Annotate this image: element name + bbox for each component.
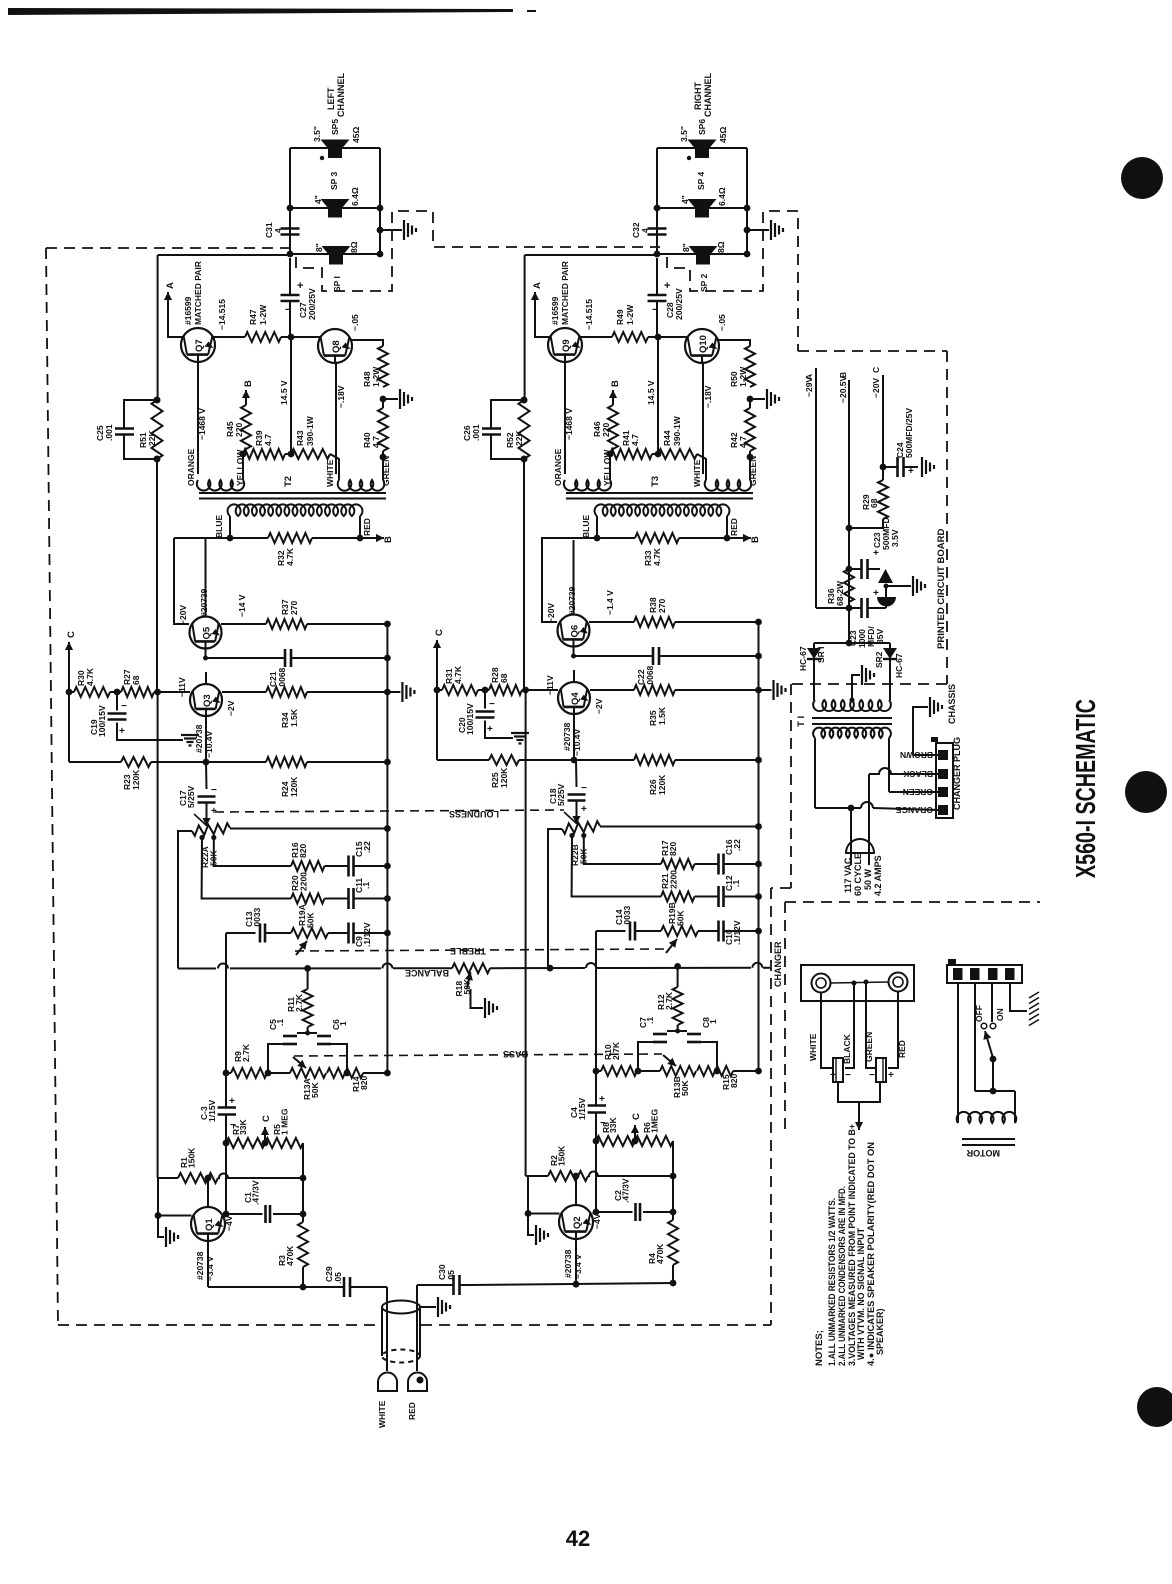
ground speaker right	[747, 229, 769, 231]
svg-text:SPEAKER): SPEAKER)	[875, 1308, 885, 1355]
svg-text:1-2W: 1-2W	[258, 304, 268, 325]
tone rail vertical L	[225, 933, 227, 1108]
transistor Q1	[191, 1207, 225, 1241]
node B arrow above R46	[612, 390, 614, 405]
capacitor C2	[593, 1212, 597, 1214]
Q4 emitter drop	[573, 714, 575, 760]
resistor R26	[634, 755, 675, 765]
svg-text:RED: RED	[897, 1040, 907, 1058]
wiper arrow C18 to R22B	[576, 801, 578, 825]
svg-text:.05: .05	[446, 1270, 456, 1282]
resistor R11	[303, 989, 313, 1027]
wire speaker row SP5	[290, 147, 380, 149]
svg-text:−1468 V: −1468 V	[197, 408, 207, 440]
capacitor C20	[484, 690, 486, 709]
capacitor C26 loop	[491, 400, 524, 428]
wire black lead	[845, 983, 854, 1068]
svg-text:−2V: −2V	[226, 700, 236, 716]
svg-text:33K: 33K	[608, 1117, 618, 1133]
resistor R49	[612, 332, 648, 342]
switch OFF contact	[991, 983, 993, 1022]
svg-text:.1: .1	[275, 1019, 285, 1026]
svg-text:4.7: 4.7	[263, 434, 273, 446]
svg-text:120K: 120K	[657, 774, 667, 795]
wire speaker row SP3	[290, 207, 380, 209]
svg-text:68: 68	[131, 675, 141, 685]
resistor R27	[121, 687, 154, 697]
tone rail to Q1 row R	[595, 1141, 597, 1212]
capacitor C4	[588, 1104, 606, 1107]
svg-text:1MEG: 1MEG	[650, 1109, 660, 1133]
speaker SP5	[321, 140, 350, 149]
hatched ground motor	[1029, 992, 1039, 998]
row2 R20	[202, 838, 291, 899]
wire rail top to speaker node L	[158, 254, 290, 256]
svg-text:4.7K: 4.7K	[285, 547, 295, 566]
svg-text:820: 820	[668, 842, 678, 856]
dashed gang line LOUDNESS	[215, 810, 564, 812]
svg-text:ORANGE: ORANGE	[186, 448, 196, 486]
plug RED	[408, 1373, 427, 1392]
svg-text:BLUE: BLUE	[214, 515, 224, 538]
wire A to Q7	[168, 314, 183, 337]
speaker SP3	[321, 199, 350, 208]
T1 secondary left lead	[814, 738, 816, 808]
svg-text:CHANNEL: CHANNEL	[703, 72, 713, 117]
svg-text:CHANNEL: CHANNEL	[336, 72, 346, 117]
svg-text:−3.4 V: −3.4 V	[205, 1256, 215, 1281]
dashed gang line TREBLE	[295, 949, 664, 951]
resistor R8	[593, 1138, 600, 1145]
svg-text:MOTOR: MOTOR	[966, 1148, 1000, 1158]
power rail C	[882, 375, 884, 467]
ground below C19	[117, 723, 183, 741]
svg-text:C: C	[434, 629, 445, 636]
svg-text:#20739: #20739	[567, 586, 577, 615]
svg-text:SP5: SP5	[330, 119, 340, 135]
svg-text:B: B	[243, 380, 254, 387]
capacitor C18	[575, 760, 578, 787]
resistor R41	[610, 449, 652, 459]
Q10 emitter wire	[702, 362, 704, 475]
svg-text:+: +	[873, 548, 879, 559]
svg-text:#20738: #20738	[563, 1249, 573, 1278]
svg-text:4.7: 4.7	[738, 436, 748, 448]
resistor R3	[298, 1222, 308, 1267]
svg-text:2.ALL UNMARKED CONDENSORS ARE: 2.ALL UNMARKED CONDENSORS ARE IN MFD.	[837, 1186, 847, 1366]
wire right-ch speaker rail right	[746, 148, 748, 252]
changer plug pin orange	[938, 805, 948, 815]
dashed enclosure left/top/bottom	[46, 247, 289, 249]
svg-text:#20738: #20738	[562, 722, 572, 751]
transformer T primary coil orange L	[197, 480, 244, 491]
resistor R42	[745, 408, 755, 451]
svg-text:+: +	[599, 1094, 605, 1105]
svg-text:68: 68	[869, 498, 879, 508]
capacitor C25 loop	[124, 400, 157, 428]
svg-text:RED: RED	[362, 518, 372, 536]
capacitor C24	[880, 464, 887, 471]
cartridge terminal right	[889, 973, 908, 992]
svg-text:50 W: 50 W	[863, 868, 873, 890]
svg-text:T2: T2	[283, 476, 294, 487]
speaker SP6	[688, 140, 717, 149]
svg-text:Q9: Q9	[561, 339, 572, 352]
svg-text:2.7K: 2.7K	[664, 991, 674, 1010]
motor connector strip	[947, 965, 1022, 983]
svg-text:117 VAC: 117 VAC	[843, 857, 853, 893]
wire to Q8	[281, 336, 320, 338]
svg-text:270: 270	[289, 601, 299, 615]
wire green lead	[866, 982, 876, 1068]
svg-text:.22: .22	[732, 839, 742, 851]
wire Q2 bottom junction	[573, 1281, 580, 1288]
svg-text:CHANGER PLUG: CHANGER PLUG	[952, 737, 962, 810]
svg-text:B: B	[838, 372, 848, 378]
capacitor C12	[695, 896, 719, 898]
capacitor C8	[687, 1033, 701, 1036]
capacitor C15	[325, 865, 349, 867]
transformer T1 core	[812, 717, 892, 719]
svg-text:3.5": 3.5"	[312, 126, 322, 142]
svg-text:SP6: SP6	[697, 119, 707, 135]
svg-text:820: 820	[298, 844, 308, 858]
wire R22B right end to bus	[600, 826, 759, 828]
svg-text:6.4Ω: 6.4Ω	[350, 187, 360, 206]
svg-text:−14.515: −14.515	[584, 299, 594, 330]
motor wire pin1	[957, 983, 959, 1123]
bus vertical L	[386, 624, 388, 1073]
wire yellow up	[242, 454, 244, 480]
tone rail vertical R	[595, 931, 597, 1106]
svg-text:45Ω: 45Ω	[351, 127, 361, 143]
dashed enclosure right side weave	[296, 211, 660, 291]
node A arrow R	[534, 292, 536, 314]
svg-text:−20.5V: −20.5V	[838, 375, 848, 403]
wire 14.5V drop R	[657, 337, 659, 454]
ground below R18	[471, 989, 484, 1008]
row2 R21	[572, 836, 661, 897]
svg-text:+: +	[487, 724, 493, 735]
svg-text:CHASSIS: CHASSIS	[947, 684, 957, 724]
svg-text:+: +	[888, 1070, 894, 1081]
motor wire pin4 to ground	[1010, 983, 1027, 1011]
svg-text:470K: 470K	[655, 1243, 665, 1264]
node C arrow L	[68, 642, 70, 663]
chassis ground	[913, 707, 928, 755]
svg-text:WITH VTVM. NO SIGNAL INPUT: WITH VTVM. NO SIGNAL INPUT	[856, 1228, 866, 1360]
svg-text:LOUDNESS: LOUDNESS	[449, 809, 499, 819]
svg-text:#16599: #16599	[550, 296, 560, 325]
svg-text:4.7: 4.7	[630, 434, 640, 446]
node C arrow tone L	[262, 1140, 269, 1147]
changer plug pin green	[938, 787, 948, 797]
wire Q10 out	[717, 340, 750, 346]
svg-text:ORANGE: ORANGE	[895, 805, 933, 815]
svg-text:−20V: −20V	[178, 605, 188, 625]
svg-text:A: A	[165, 282, 176, 289]
wire Q2 top to base row	[575, 1176, 577, 1206]
node A arrow L	[167, 292, 169, 314]
svg-text:−14 V: −14 V	[237, 594, 247, 617]
wire T secondary to Q6	[542, 538, 557, 622]
dashed gang line BASS	[294, 1054, 662, 1056]
svg-text:T3: T3	[650, 476, 661, 487]
svg-text:−: −	[121, 701, 127, 712]
svg-text:Q4: Q4	[570, 692, 581, 705]
motor wire pin2	[974, 983, 976, 1091]
resistor R43	[291, 449, 330, 459]
bass row R10	[593, 1068, 600, 1075]
resistor R23	[68, 692, 70, 762]
svg-text:1-2W: 1-2W	[625, 304, 635, 325]
speaker SP4	[688, 199, 717, 208]
svg-text:.47/3V: .47/3V	[251, 1180, 261, 1205]
svg-text:ORANGE: ORANGE	[553, 448, 563, 486]
svg-text:OFF: OFF	[974, 1005, 984, 1022]
svg-text:200/25V: 200/25V	[307, 288, 317, 320]
resistor R30	[68, 663, 70, 692]
wiper arrow R19B	[666, 939, 677, 953]
cartridge link wire	[830, 982, 889, 983]
wire white lead	[821, 992, 833, 1068]
cable shield ground	[420, 1306, 436, 1308]
ground mid PCB	[886, 585, 911, 587]
svg-text:−: −	[652, 304, 658, 316]
svg-text:.47/3V: .47/3V	[621, 1178, 631, 1203]
svg-text:−: −	[581, 783, 587, 794]
resistor R40	[378, 408, 388, 451]
wire Q1 top to base row	[207, 1178, 209, 1208]
svg-text:42: 42	[566, 1526, 590, 1551]
svg-text:TREBLE: TREBLE	[450, 946, 486, 956]
capacitor C17	[205, 762, 208, 789]
diode SR2	[889, 643, 891, 648]
ground left of Q1	[158, 1216, 164, 1238]
svg-text:50K: 50K	[680, 1080, 690, 1096]
svg-text:WHITE: WHITE	[377, 1400, 387, 1428]
svg-text:3.5V: 3.5V	[890, 529, 900, 547]
transformer secondary coil L	[228, 504, 363, 516]
rail down to Q2	[525, 690, 527, 1176]
wire Q7 collector row	[213, 336, 245, 338]
changer dashed box	[785, 901, 1040, 903]
rail left R with R52	[524, 255, 526, 400]
ground below R50	[747, 396, 754, 403]
capacitor C28	[656, 258, 658, 295]
svg-text:BLUE: BLUE	[581, 515, 591, 538]
capacitor C21	[205, 649, 207, 659]
svg-text:−.18V: −.18V	[336, 385, 346, 408]
row3 C14 and R19B	[596, 930, 626, 932]
bottom rail L	[207, 1242, 209, 1288]
ground on bus R	[759, 689, 772, 691]
svg-text:820: 820	[359, 1076, 369, 1090]
svg-text:−: −	[845, 1070, 851, 1081]
ground speaker left	[380, 229, 402, 231]
svg-text:50K: 50K	[310, 1082, 320, 1098]
svg-text:1: 1	[708, 1019, 718, 1024]
svg-text:BALANCE: BALANCE	[405, 968, 449, 978]
svg-text:4: 4	[273, 228, 283, 233]
transistor Q9	[548, 328, 582, 362]
svg-text:−3.4 V: −3.4 V	[573, 1254, 583, 1279]
motor core lines	[962, 1138, 1015, 1140]
resistor R7	[223, 1140, 230, 1147]
wiper arrow C17 to R22A	[206, 803, 208, 827]
wire T secondary to Q5	[174, 538, 189, 624]
node B arrow above R45	[245, 390, 247, 405]
svg-text:WHITE: WHITE	[808, 1033, 818, 1061]
svg-text:.1: .1	[731, 880, 741, 887]
svg-text:.1/12V: .1/12V	[362, 922, 372, 947]
cartridge box	[801, 965, 914, 1001]
Q3 emitter drop	[205, 716, 207, 762]
changer plug pin black	[938, 769, 948, 779]
resistor R50	[745, 346, 755, 387]
capacitor C23 1000MFD	[846, 605, 853, 612]
bus vertical R	[758, 622, 760, 1071]
resistor R33	[635, 533, 679, 543]
svg-text:RED: RED	[407, 1402, 417, 1420]
svg-text:Q6: Q6	[570, 625, 581, 638]
transistor Q7	[181, 328, 215, 362]
svg-text:14.5 V: 14.5 V	[646, 380, 656, 405]
capacitor changer right	[876, 1058, 886, 1082]
resistor R24	[266, 757, 307, 767]
potentiometer R13B	[638, 1070, 660, 1072]
svg-text:1/15V: 1/15V	[577, 1097, 587, 1120]
node C arrow R	[436, 640, 438, 661]
svg-text:BASS: BASS	[503, 1049, 528, 1059]
svg-text:100/15V: 100/15V	[465, 703, 475, 735]
svg-text:Q5: Q5	[202, 626, 213, 639]
svg-text:C: C	[66, 631, 77, 638]
svg-text:#16599: #16599	[183, 296, 193, 325]
potentiometer R13A	[268, 1072, 290, 1074]
wire right-ch speaker rows	[657, 147, 747, 149]
svg-text:1 MEG: 1 MEG	[280, 1108, 290, 1135]
capacitor C10	[698, 930, 719, 932]
changer plug body	[936, 743, 953, 818]
capacitor C22	[573, 647, 575, 657]
svg-text:PRINTED CIRCUIT BOARD: PRINTED CIRCUIT BOARD	[936, 529, 947, 649]
svg-text:−11V: −11V	[177, 677, 187, 697]
svg-text:SP 4: SP 4	[696, 171, 706, 190]
svg-text:WHITE: WHITE	[692, 459, 702, 487]
svg-text:.0033: .0033	[622, 905, 632, 927]
speaker SP1	[322, 246, 351, 255]
motor coil	[975, 1090, 1015, 1092]
resistor R31	[436, 661, 438, 690]
svg-text:C: C	[871, 367, 881, 373]
resistor R47	[245, 332, 281, 342]
svg-text:390-1W: 390-1W	[305, 415, 315, 446]
resistor R28	[489, 685, 522, 695]
svg-text:22K: 22K	[514, 430, 524, 446]
svg-text:1-2W: 1-2W	[738, 366, 748, 387]
svg-text:BLACK: BLACK	[902, 769, 933, 779]
svg-text:R49: R49	[615, 309, 625, 325]
T1 secondary right lead	[888, 738, 890, 792]
svg-text:120K: 120K	[499, 767, 509, 788]
transformer core L	[199, 492, 386, 494]
plug WHITE	[378, 1373, 397, 1392]
resistor R29	[878, 480, 888, 519]
svg-text:NOTES;: NOTES;	[814, 1330, 825, 1366]
svg-text:A: A	[804, 374, 814, 380]
capacitor C32	[656, 215, 658, 229]
svg-text:3.5": 3.5"	[679, 126, 689, 142]
svg-text:4.7: 4.7	[371, 436, 381, 448]
wire R5 to C1 row	[302, 1143, 304, 1214]
svg-text:−11V: −11V	[545, 675, 555, 695]
svg-text:Q2: Q2	[572, 1216, 583, 1229]
potentiometer R18	[452, 963, 490, 973]
svg-text:−.05: −.05	[717, 314, 727, 331]
svg-text:68-2W: 68-2W	[835, 580, 845, 606]
thermistor triangle	[878, 569, 893, 583]
half disc	[877, 597, 896, 607]
svg-text:.0068: .0068	[277, 667, 287, 689]
capacitor C30	[417, 1284, 443, 1286]
svg-text:#20738: #20738	[195, 1251, 205, 1280]
svg-text:−1.4 V: −1.4 V	[605, 590, 615, 615]
capacitor C-3	[218, 1106, 236, 1109]
resistor R39	[243, 449, 285, 459]
wire Q9 collector row	[580, 336, 612, 338]
potentiometer R22A	[192, 823, 230, 836]
svg-text:SR2: SR2	[874, 651, 884, 668]
transformer T primary coil orange R	[564, 480, 611, 491]
svg-text:35V: 35V	[875, 629, 885, 644]
wire R22B left end down	[548, 829, 562, 966]
svg-text:1.5K: 1.5K	[289, 708, 299, 727]
svg-text:1.5K: 1.5K	[657, 706, 667, 725]
svg-text:Q10: Q10	[698, 335, 709, 353]
svg-text:4.7K: 4.7K	[453, 665, 463, 684]
svg-text:+: +	[873, 588, 879, 599]
svg-text:50K: 50K	[676, 910, 686, 926]
svg-text:T I: T I	[796, 716, 807, 727]
wire red lead	[888, 991, 898, 1068]
svg-text:−: −	[869, 1070, 875, 1081]
rail left L with R51	[157, 255, 159, 400]
wire 14.5V drop L	[290, 337, 292, 454]
svg-text:RED: RED	[729, 518, 739, 536]
svg-text:+: +	[297, 280, 303, 292]
svg-text:−4V: −4V	[592, 1213, 602, 1229]
capacitor C11	[325, 898, 349, 900]
wire C27/C28 drop L	[289, 330, 291, 337]
svg-text:.05: .05	[333, 1272, 343, 1284]
svg-text:.1: .1	[645, 1017, 655, 1024]
svg-text:X560-I SCHEMATIC: X560-I SCHEMATIC	[1070, 699, 1101, 878]
svg-text:GREEN: GREEN	[864, 1032, 874, 1062]
svg-text:.0033: .0033	[252, 907, 262, 929]
binding hole middle	[1125, 771, 1167, 813]
wire left speaker rail	[289, 148, 291, 254]
node B arrow out L	[360, 537, 384, 539]
changer plug pin brown	[938, 750, 948, 760]
wire speaker row SP1	[290, 253, 380, 255]
resistor R35	[590, 689, 634, 691]
svg-text:RIGHT: RIGHT	[693, 82, 703, 111]
ground T1 center tap	[852, 675, 860, 700]
wiper arrow R19A	[296, 941, 307, 955]
svg-text:8Ω: 8Ω	[349, 241, 359, 253]
svg-text:−.05: −.05	[350, 314, 360, 331]
